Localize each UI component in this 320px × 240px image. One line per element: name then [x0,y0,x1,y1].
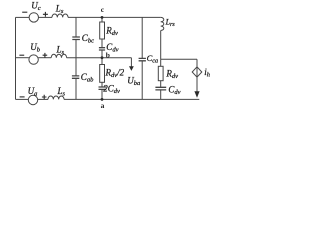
resistor Rdv (right branch) [158,66,163,80]
voltage arrow Uba [130,58,132,67]
wire Cca to row a [141,61,143,100]
wire row c to corner [68,16,161,18]
capacitor Cdv (right) plates [155,87,166,90]
svg-text:Cca: Cca [147,53,159,64]
polarity plus Ua [42,95,47,100]
wire Lrs down to node line [160,31,162,60]
svg-text:Uba: Uba [127,75,140,87]
svg-text:Ub: Ub [30,42,41,54]
wire row b to node b [67,57,102,59]
wire Rdv to Cdv right [160,81,162,88]
resistor Rdv (upper mid branch) [100,22,105,39]
wire right node line [161,58,197,60]
resistor Rdv/2 [100,65,105,83]
svg-text:Ls: Ls [55,3,64,15]
wire row a after source [38,98,48,100]
svg-text:Uc: Uc [31,1,41,13]
svg-text:Cdv: Cdv [168,85,180,97]
wire Rdv to Cdv [101,39,103,48]
svg-text:a: a [101,101,105,110]
wire row c after source [39,16,53,18]
wire Cab to row a [75,78,77,99]
inductor Ls (bottom row) [48,96,64,99]
wire row b horizontal [16,57,29,59]
wire diamond branch top [196,59,198,67]
wire left bus vertical [15,17,17,99]
voltage source Ub [29,55,38,64]
inductor Ls (top row) [52,14,68,17]
voltage source Uc [29,13,38,22]
polarity plus Ub [43,53,48,58]
svg-text:Cab: Cab [81,72,94,84]
svg-text:c: c [101,5,105,14]
svg-text:Ls: Ls [56,45,65,57]
wire Rdv/2 to 2Cdv [101,82,103,87]
voltage source Ua [28,95,37,104]
svg-text:Lrs: Lrs [165,18,176,28]
inductor Lrs vertical [161,17,164,30]
svg-text:Cbc: Cbc [82,33,94,45]
capacitor Cab plates [72,76,79,78]
wire Cbc to row b crossing to Cab [75,40,77,76]
polarity minus Uc [22,11,27,13]
wire through diamond to arrow [196,67,198,92]
dependent current source ih diamond [192,67,202,77]
capacitor Cbc plates [72,37,80,40]
inductor Ls (middle row) [51,54,66,57]
wire node line to Rdv right [160,59,162,66]
capacitor Cca column upper segment [141,17,143,58]
svg-text:2Cdv: 2Cdv [103,84,120,96]
wire row a to right end [64,98,199,100]
svg-text:Rdv: Rdv [105,25,118,37]
svg-text:Ua: Ua [28,86,38,98]
svg-text:ih: ih [204,67,210,79]
wire Cdv to node b [101,50,103,58]
arrowhead Uba [129,66,134,71]
node b dot [101,56,104,59]
wire row a horizontal [16,98,29,100]
svg-text:Ls: Ls [57,86,66,98]
polarity minus Ub [19,54,24,56]
wire 2Cdv to node a [101,89,103,99]
node c dot [101,16,104,19]
capacitor Cca plates [139,58,146,60]
svg-text:b: b [106,50,110,59]
wire node b extension right [102,57,131,59]
capacitor Cbc column upper segment [75,17,77,37]
capacitor 2Cdv plates [99,87,107,89]
svg-text:Rdv: Rdv [165,68,178,80]
wire node b down [101,58,103,65]
wire Cdv right to row a [160,90,162,100]
wire row c horizontal [16,16,30,18]
svg-text:Rdv/2: Rdv/2 [105,68,125,80]
capacitor Cdv (upper mid) plates [99,48,105,50]
arrowhead ih source [194,91,199,98]
polarity minus Ua [20,96,25,98]
polarity plus Uc [43,12,48,17]
node a dot [101,98,104,101]
wire row b after source [38,57,51,59]
wire node c down [101,17,103,22]
